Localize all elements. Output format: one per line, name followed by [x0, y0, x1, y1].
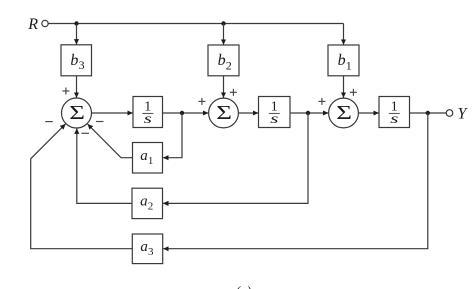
svg-text:b: b: [218, 52, 226, 69]
svg-text:s: s: [270, 110, 278, 126]
gain block a3: [132, 234, 162, 264]
svg-text:Σ: Σ: [216, 102, 232, 124]
svg-text:Σ: Σ: [69, 102, 85, 124]
gain block a2: [132, 188, 163, 218]
wire a1 to S1 lower-right: [88, 124, 133, 158]
caption (a): [236, 283, 251, 289]
wire b2 to summer S2: [223, 76, 225, 98]
svg-text:1: 1: [148, 155, 154, 167]
svg-text:R: R: [27, 16, 38, 33]
node junction dot after I1: [180, 111, 184, 115]
wire tap down from node after I3 into a3: [163, 113, 428, 249]
svg-text:b: b: [70, 52, 78, 69]
output terminal circle: [446, 110, 453, 117]
wire S1 to integrator I1: [92, 112, 133, 114]
wire S2 to integrator I2: [238, 112, 258, 114]
output terminal Y label: [458, 105, 469, 122]
svg-text:a: a: [140, 148, 148, 164]
minus sign at S1 left: [45, 121, 53, 123]
svg-text:3: 3: [148, 246, 154, 258]
plus sign at S1 top: [62, 88, 69, 95]
node junction dot above b2: [221, 21, 225, 25]
gain block b2: [208, 45, 239, 76]
svg-text:b: b: [338, 52, 346, 69]
wire I1 to S2: [163, 112, 209, 114]
wire I2 to S3: [290, 112, 328, 114]
plus sign at S3 left: [318, 98, 325, 105]
gain block b1: [328, 45, 359, 76]
svg-text:1: 1: [346, 58, 352, 72]
wire b3 to summer S1: [76, 76, 78, 98]
svg-text:s: s: [390, 110, 398, 126]
wire drop into b1: [343, 24, 345, 45]
summing junction S3: [329, 98, 359, 128]
node junction dot above b3: [74, 21, 78, 25]
svg-text:2: 2: [226, 58, 232, 72]
wire a3 to S1 lower-left: [31, 124, 133, 249]
minus sign at S1 bottom: [81, 132, 89, 134]
svg-text:a: a: [140, 239, 148, 255]
wire drop into b2: [223, 24, 225, 45]
wire b1 to summer S3: [343, 76, 345, 98]
wire tap down from node after I2 into a2: [163, 113, 308, 203]
integrator I3: [379, 97, 410, 128]
node junction dot after I2: [306, 111, 310, 115]
wire top rail from R to b1 drop: [48, 23, 343, 25]
svg-text:s: s: [144, 110, 152, 126]
integrator I2: [259, 97, 291, 128]
summing junction S1: [62, 98, 92, 128]
plus sign at S2 top right: [230, 89, 237, 96]
integrator I1: [133, 97, 163, 128]
minus sign at S1 right: [96, 121, 104, 123]
plus sign at S3 top right: [350, 89, 357, 96]
svg-text:3: 3: [79, 58, 85, 72]
svg-text:Σ: Σ: [336, 102, 352, 124]
plus sign at S2 left: [198, 98, 205, 105]
wire a2 to S1 bottom: [77, 128, 132, 203]
gain block a1: [133, 143, 163, 174]
summing junction S2: [209, 98, 239, 128]
svg-text:a: a: [140, 194, 148, 210]
wire S3 to integrator I3: [358, 112, 378, 114]
svg-text:Y: Y: [458, 105, 469, 122]
svg-text:2: 2: [148, 201, 154, 213]
gain block b3: [61, 45, 92, 76]
node junction dot after I3: [426, 111, 430, 115]
svg-text:(a): (a): [236, 283, 251, 289]
wire tap down from node after I1 into a1: [163, 113, 182, 158]
wire I3 to output terminal: [410, 112, 447, 114]
wire drop into b3: [76, 24, 78, 45]
input terminal circle: [42, 20, 48, 26]
input terminal R label: [27, 16, 38, 33]
